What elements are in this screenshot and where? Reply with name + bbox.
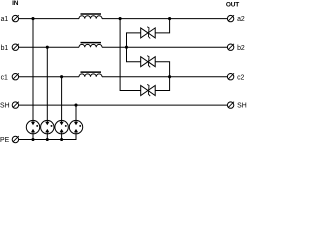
suppressor diode D1 — [141, 27, 156, 39]
wire F3 to PE — [61, 134, 63, 140]
junction row b / D1-D2 left — [125, 46, 128, 49]
svg-text:b2: b2 — [237, 45, 245, 52]
svg-text:b1: b1 — [1, 45, 9, 52]
terminal c2 — [227, 73, 244, 81]
junction PE / F3 — [60, 138, 63, 141]
wire row b left — [19, 46, 79, 48]
svg-text:SH: SH — [237, 103, 247, 110]
wire D3 left to row a — [120, 19, 141, 91]
terminal SH-in — [0, 102, 19, 110]
junction row c / D2-D3 right — [168, 75, 171, 78]
wire D2 left to row b — [127, 47, 141, 62]
junction row SH / F4 drop — [74, 104, 77, 107]
wire F2 to PE — [46, 134, 48, 140]
wire D1 left to row b — [127, 33, 141, 47]
junction row a / F1 drop — [31, 17, 34, 20]
svg-text:SH: SH — [0, 103, 10, 110]
svg-text:IN: IN — [12, 0, 19, 7]
gas discharge tube F4 — [69, 120, 82, 133]
inductor L3 — [79, 72, 102, 77]
svg-text:a2: a2 — [237, 16, 245, 23]
suppressor diode D2 — [141, 56, 156, 68]
wire drop b to arrester F2 — [46, 47, 48, 120]
gas discharge tube F2 — [41, 120, 54, 133]
wire F1 to PE — [32, 134, 34, 140]
inductor L2 — [79, 43, 102, 48]
junction row a / D1 right — [168, 17, 171, 20]
wire row a right — [102, 18, 227, 20]
wire row b right — [102, 46, 227, 48]
junction PE / F2 — [46, 138, 49, 141]
wire D1 right to row a — [155, 19, 169, 33]
wire drop a to arrester F1 — [32, 19, 34, 121]
junction PE / F1 — [31, 138, 34, 141]
svg-text:c2: c2 — [237, 74, 244, 81]
junction row b / F2 drop — [46, 46, 49, 49]
terminal b2 — [227, 44, 245, 52]
wire row c right — [102, 76, 227, 78]
terminal SH-out — [227, 102, 246, 110]
junction row a / D3 left — [119, 17, 122, 20]
svg-text:OUT: OUT — [226, 1, 239, 8]
wire row SH — [19, 104, 228, 106]
wire row a left — [19, 18, 79, 20]
terminal c1 — [1, 73, 19, 81]
svg-text:PE: PE — [0, 137, 10, 144]
wire row c left — [19, 76, 79, 78]
terminal a2 — [227, 15, 245, 23]
wire D3 right to row c — [155, 77, 169, 91]
terminal PE — [0, 136, 19, 144]
gas discharge tube F3 — [55, 120, 68, 133]
svg-text:a1: a1 — [1, 16, 9, 23]
svg-text:c1: c1 — [1, 74, 8, 81]
suppressor diode D3 — [141, 84, 156, 96]
wire D2 right to row c — [155, 62, 169, 77]
terminal b1 — [1, 44, 19, 52]
wire row PE — [19, 134, 76, 140]
terminal a1 — [1, 15, 19, 23]
gas discharge tube F1 — [26, 120, 39, 133]
junction row c / F3 drop — [60, 75, 63, 78]
wire drop c to arrester F3 — [61, 77, 63, 121]
inductor L1 — [79, 14, 102, 19]
wire drop SH to arrester F4 — [75, 105, 77, 120]
